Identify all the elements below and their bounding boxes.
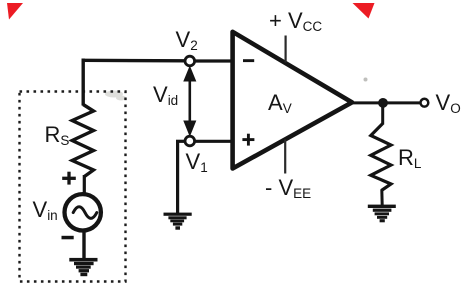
minus sign below Vin source (62, 236, 74, 240)
label -VEE (265, 177, 311, 199)
Vid double-headed arrow (184, 67, 196, 136)
Vo terminal (open circle) (421, 99, 429, 107)
resistor RS zigzag (72, 105, 93, 177)
node V2 (open circle) (185, 56, 195, 66)
label V2 (176, 29, 198, 51)
Vcc supply stub line (285, 36, 287, 63)
ground under V1 (164, 213, 192, 230)
op-amp plus sign (242, 134, 254, 146)
junction node (solid dot) (378, 98, 388, 108)
wire: junction down to RL (381, 103, 384, 125)
label +VCC (269, 10, 322, 32)
resistor RL zigzag (371, 124, 391, 191)
wire: op-amp output to Vo terminal (351, 101, 421, 104)
wire: RL to ground (380, 190, 383, 206)
wire: RS to Vin source (83, 175, 86, 194)
wire: V2 node to op-amp inverting input (194, 59, 231, 62)
wire: V1 down to ground (176, 141, 179, 213)
plus sign above Vin source (62, 172, 76, 185)
sine wave inside source (73, 207, 97, 219)
label V1 (186, 151, 208, 173)
ground under Vin (69, 258, 97, 276)
label RS (45, 124, 70, 146)
label RL (398, 147, 421, 169)
scan speck above output wire (364, 78, 368, 82)
wire: top rail to V2 node (82, 59, 187, 63)
wire: V1 node left stub (176, 140, 185, 143)
red corner mark left (7, 3, 23, 20)
op-amp minus sign (243, 59, 254, 62)
label Vin (33, 199, 58, 221)
scan smudge near dashed box top-right (105, 91, 126, 101)
label Vid (153, 84, 178, 106)
wire: V1 node to op-amp non-inverting input (194, 140, 231, 143)
op-amp U1 triangle (233, 32, 352, 169)
label AV (268, 92, 292, 114)
node V1 (open circle) (185, 136, 195, 146)
dashed source box (20, 92, 126, 282)
ground under RL (368, 205, 396, 223)
Vee supply stub line (284, 140, 286, 174)
wire: Vin source to ground (82, 231, 85, 259)
wire: vertical from top rail into box to resistor (81, 59, 84, 106)
source Vin circle (65, 194, 101, 230)
red corner mark right (353, 3, 375, 19)
label VO (436, 92, 461, 114)
